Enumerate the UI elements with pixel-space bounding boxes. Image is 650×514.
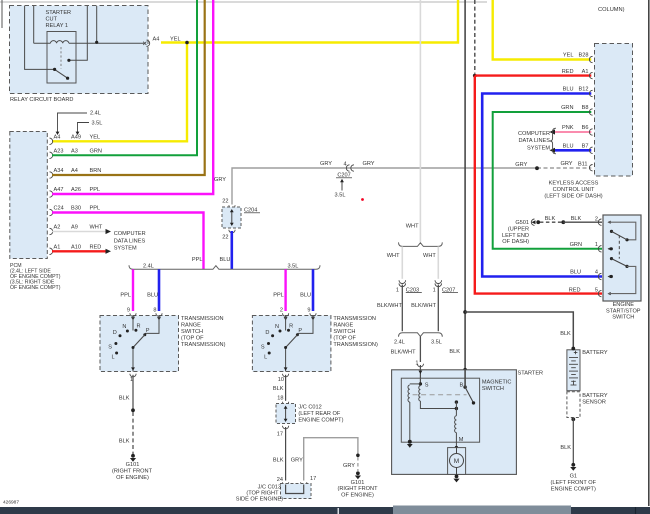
svg-text:18: 18 [277, 395, 283, 401]
svg-text:4: 4 [595, 270, 598, 276]
svg-text:LEFT END: LEFT END [502, 233, 529, 239]
svg-text:426987: 426987 [3, 500, 19, 506]
svg-text:BLK: BLK [560, 445, 571, 451]
svg-text:GRY: GRY [362, 161, 374, 167]
svg-text:BLU: BLU [147, 293, 158, 299]
svg-text:GRY: GRY [291, 458, 303, 464]
svg-text:B11: B11 [578, 161, 588, 167]
svg-text:L: L [264, 355, 267, 361]
svg-text:22: 22 [222, 199, 228, 205]
svg-text:BLK/WHT: BLK/WHT [411, 303, 436, 309]
svg-text:1: 1 [595, 242, 598, 248]
svg-text:C24: C24 [54, 206, 64, 212]
svg-text:GRN: GRN [561, 105, 573, 111]
svg-text:PPL: PPL [90, 206, 101, 212]
svg-text:CUT: CUT [46, 17, 58, 23]
svg-text:B6: B6 [582, 125, 589, 131]
svg-text:OF DASH): OF DASH) [502, 239, 529, 245]
svg-text:(TOP OF: (TOP OF [181, 336, 204, 342]
svg-text:PPL: PPL [90, 187, 101, 193]
svg-text:S: S [425, 383, 429, 389]
svg-text:2.4L: 2.4L [143, 264, 154, 270]
svg-text:GRN: GRN [90, 149, 102, 155]
svg-text:BLK/WHT: BLK/WHT [377, 303, 402, 309]
svg-text:SWITCH: SWITCH [333, 329, 355, 335]
svg-text:A9: A9 [71, 225, 78, 231]
svg-text:RELAY CIRCUIT BOARD: RELAY CIRCUIT BOARD [10, 97, 73, 103]
svg-text:A34: A34 [54, 168, 64, 174]
svg-text:1: 1 [396, 287, 399, 293]
svg-text:B7: B7 [582, 144, 589, 150]
svg-text:P: P [298, 328, 302, 334]
svg-text:B28: B28 [579, 53, 589, 59]
svg-text:A10: A10 [71, 245, 81, 251]
svg-text:PPL: PPL [192, 257, 203, 263]
svg-text:KEYLESS ACCESS: KEYLESS ACCESS [549, 181, 599, 187]
svg-text:BLK: BLK [119, 439, 130, 445]
svg-text:BLU: BLU [563, 144, 574, 150]
svg-text:BLU: BLU [570, 270, 581, 276]
svg-text:N: N [275, 324, 279, 330]
svg-text:B12: B12 [579, 87, 589, 93]
svg-text:G1: G1 [570, 473, 577, 479]
svg-text:1: 1 [130, 377, 133, 383]
svg-text:R: R [289, 324, 293, 330]
svg-text:RELAY 1: RELAY 1 [46, 23, 69, 29]
svg-text:24: 24 [277, 477, 283, 483]
svg-text:A4: A4 [54, 135, 61, 141]
svg-text:BLU: BLU [220, 257, 231, 263]
svg-text:2: 2 [280, 308, 283, 314]
svg-text:GRN: GRN [570, 242, 582, 248]
svg-text:COMPUTER: COMPUTER [518, 131, 550, 137]
svg-text:GRY: GRY [214, 177, 226, 183]
svg-text:WHT: WHT [387, 253, 400, 259]
svg-text:S: S [261, 345, 265, 351]
svg-text:GRY: GRY [320, 161, 332, 167]
svg-text:2.4L: 2.4L [394, 339, 405, 345]
svg-text:(LEFT SIDE OF DASH): (LEFT SIDE OF DASH) [544, 194, 602, 200]
svg-text:17: 17 [310, 476, 316, 482]
svg-text:A4: A4 [71, 168, 78, 174]
svg-text:(RIGHT FRONT: (RIGHT FRONT [112, 468, 153, 474]
svg-text:MAGNETIC: MAGNETIC [482, 380, 512, 386]
svg-text:L: L [112, 355, 115, 361]
svg-text:A1: A1 [582, 69, 589, 75]
svg-text:10: 10 [278, 377, 284, 383]
svg-text:BLK: BLK [571, 216, 582, 222]
svg-text:RED: RED [90, 245, 102, 251]
svg-text:SWITCH: SWITCH [482, 386, 504, 392]
svg-text:(LEFT REAR OF: (LEFT REAR OF [298, 411, 340, 417]
svg-text:ENGINE COMPT): ENGINE COMPT) [551, 487, 596, 493]
svg-text:22: 22 [222, 235, 228, 241]
svg-text:BATTERY: BATTERY [582, 393, 608, 399]
svg-text:17: 17 [277, 432, 283, 438]
svg-text:5: 5 [595, 287, 598, 293]
svg-text:SENSOR: SENSOR [582, 400, 606, 406]
svg-text:P: P [146, 328, 150, 334]
svg-text:D: D [265, 330, 269, 336]
svg-text:G101: G101 [351, 480, 365, 486]
svg-text:BLU: BLU [300, 293, 311, 299]
svg-text:OF ENGINE COMPT): OF ENGINE COMPT) [10, 285, 61, 291]
svg-text:3.5L: 3.5L [335, 193, 346, 199]
svg-text:STARTER: STARTER [46, 10, 72, 16]
svg-text:OF ENGINE): OF ENGINE) [341, 493, 374, 499]
svg-text:G501: G501 [515, 220, 529, 226]
svg-text:BLK: BLK [119, 395, 130, 401]
svg-text:SYSTEM: SYSTEM [527, 145, 550, 151]
svg-text:S: S [108, 345, 112, 351]
svg-text:PPL: PPL [273, 293, 284, 299]
svg-text:TRANSMISSION: TRANSMISSION [181, 316, 224, 322]
svg-text:9: 9 [307, 308, 310, 314]
svg-text:A23: A23 [54, 149, 64, 155]
svg-text:A47: A47 [54, 187, 64, 193]
svg-text:A3: A3 [71, 149, 78, 155]
svg-text:(TOP OF: (TOP OF [333, 336, 356, 342]
svg-text:GRY: GRY [560, 161, 572, 167]
svg-text:ENGINE: ENGINE [613, 302, 635, 308]
svg-text:8: 8 [153, 308, 156, 314]
svg-text:RANGE: RANGE [181, 322, 201, 328]
svg-text:BLK: BLK [449, 349, 460, 355]
svg-text:BLK: BLK [545, 216, 556, 222]
svg-text:TRANSMISSION: TRANSMISSION [333, 316, 376, 322]
svg-text:SYSTEM: SYSTEM [114, 246, 137, 252]
svg-text:BRN: BRN [90, 168, 102, 174]
svg-text:PPL: PPL [120, 293, 131, 299]
svg-text:9: 9 [127, 308, 130, 314]
svg-text:DATA LINES: DATA LINES [114, 238, 146, 244]
svg-text:OF ENGINE): OF ENGINE) [116, 475, 149, 481]
svg-text:2: 2 [595, 216, 598, 222]
svg-text:B30: B30 [71, 206, 81, 212]
svg-text:RED: RED [562, 69, 574, 75]
svg-text:A2: A2 [54, 225, 61, 231]
svg-text:G101: G101 [126, 462, 140, 468]
svg-text:(UPPER: (UPPER [508, 227, 529, 233]
svg-text:3.5L: 3.5L [288, 264, 299, 270]
svg-text:D: D [113, 330, 117, 336]
svg-text:(LEFT FRONT OF: (LEFT FRONT OF [551, 480, 597, 486]
svg-text:CONTROL UNIT: CONTROL UNIT [553, 187, 595, 193]
svg-text:ENGINE COMPT): ENGINE COMPT) [298, 418, 343, 424]
svg-text:N: N [122, 324, 126, 330]
svg-text:SWITCH: SWITCH [612, 315, 634, 321]
svg-text:BLK: BLK [560, 331, 571, 337]
svg-text:COMPUTER: COMPUTER [114, 231, 146, 237]
svg-text:A26: A26 [71, 187, 81, 193]
svg-text:SIDE OF ENGINE): SIDE OF ENGINE) [236, 497, 283, 503]
svg-text:DATA LINES: DATA LINES [519, 138, 551, 144]
svg-text:A1: A1 [54, 245, 61, 251]
svg-text:M: M [454, 458, 459, 465]
svg-text:COLUMN): COLUMN) [598, 7, 625, 13]
svg-text:R: R [137, 324, 141, 330]
svg-text:3.5L: 3.5L [92, 120, 103, 126]
svg-text:BATTERY: BATTERY [582, 350, 608, 356]
svg-text:B: B [460, 382, 464, 388]
svg-text:BLK: BLK [273, 386, 284, 392]
svg-text:WHT: WHT [406, 224, 419, 230]
svg-text:A49: A49 [71, 135, 81, 141]
svg-text:TRANSMISSION): TRANSMISSION) [181, 342, 226, 348]
svg-text:WHT: WHT [90, 225, 103, 231]
svg-text:3.5L: 3.5L [431, 339, 442, 345]
svg-text:BLK/WHT: BLK/WHT [391, 350, 416, 356]
svg-text:J/C C012: J/C C012 [298, 404, 321, 410]
svg-text:A4: A4 [153, 37, 160, 43]
svg-text:(RIGHT FRONT: (RIGHT FRONT [338, 486, 379, 492]
svg-text:M: M [459, 437, 464, 443]
svg-text:B8: B8 [582, 105, 589, 111]
svg-text:YEL: YEL [563, 53, 574, 59]
svg-text:BLU: BLU [563, 87, 574, 93]
svg-text:BLK: BLK [273, 458, 284, 464]
svg-text:WHT: WHT [423, 253, 436, 259]
svg-text:STARTER: STARTER [518, 370, 544, 376]
svg-text:YEL: YEL [90, 135, 101, 141]
svg-text:RANGE: RANGE [333, 322, 353, 328]
svg-text:GRY: GRY [343, 463, 355, 469]
svg-text:1: 1 [433, 287, 436, 293]
svg-text:2.4L: 2.4L [90, 111, 101, 117]
svg-text:PNK: PNK [562, 125, 574, 131]
svg-text:START/STOP: START/STOP [606, 308, 641, 314]
svg-text:GRY: GRY [515, 162, 527, 168]
svg-text:TRANSMISSION): TRANSMISSION) [333, 342, 378, 348]
svg-text:SWITCH: SWITCH [181, 329, 203, 335]
svg-text:RED: RED [569, 287, 581, 293]
